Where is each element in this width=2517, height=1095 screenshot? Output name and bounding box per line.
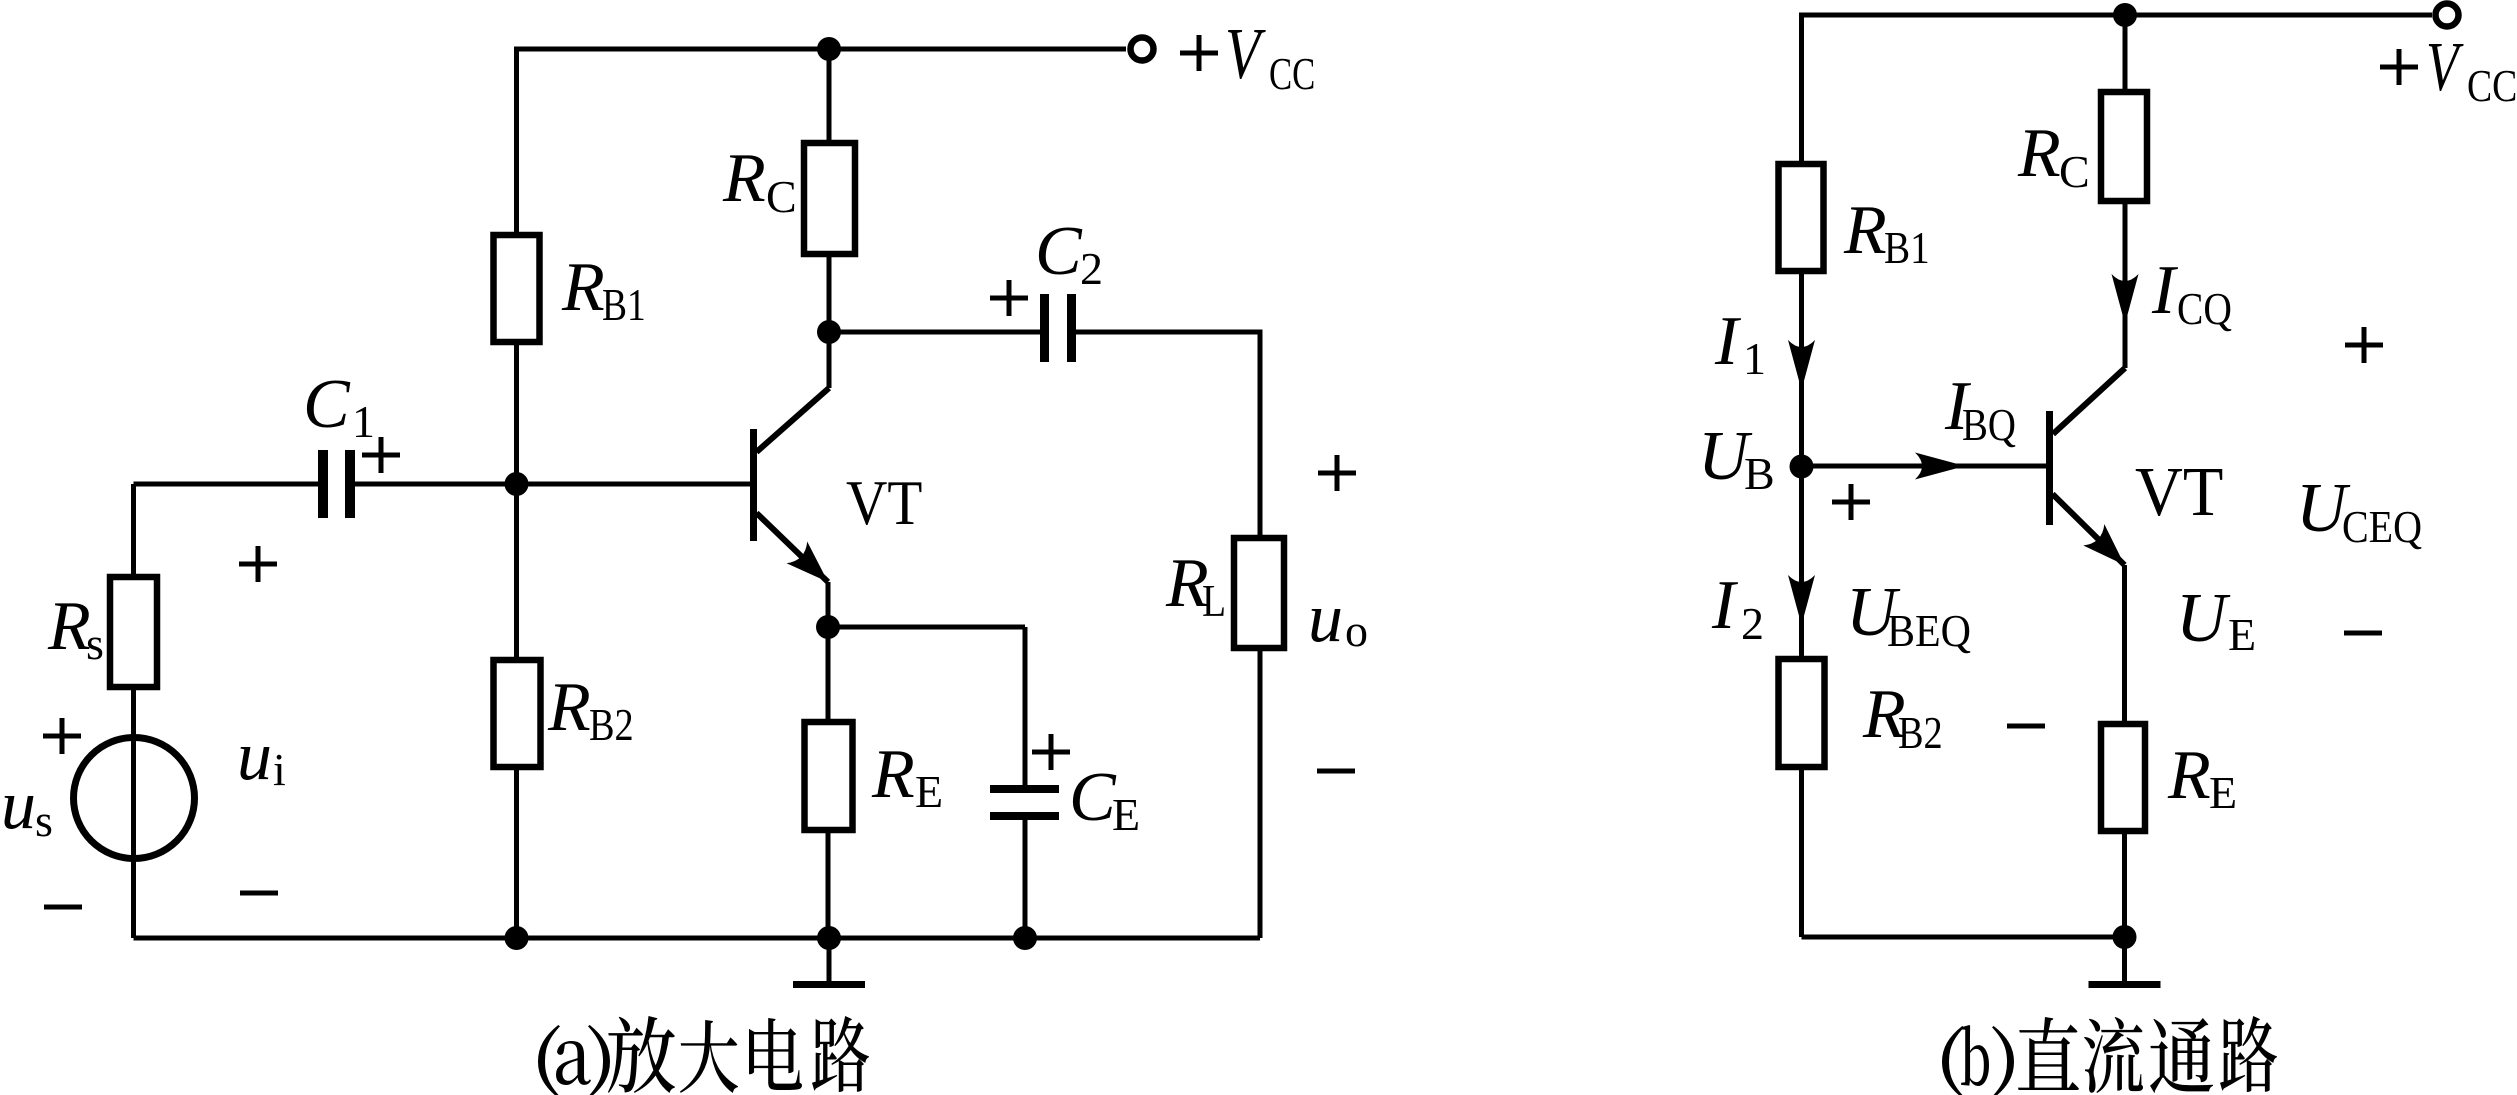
svg-text:R: R (722, 140, 766, 217)
svg-text:B1: B1 (1884, 222, 1930, 273)
svg-text:R: R (547, 669, 591, 746)
svg-text:u: u (1308, 580, 1343, 657)
svg-text:VT: VT (846, 467, 922, 538)
svg-text:1: 1 (1743, 333, 1766, 384)
svg-text:V: V (1225, 13, 1266, 94)
svg-text:s: s (35, 795, 53, 846)
svg-text:R: R (47, 588, 91, 665)
svg-text:C: C (766, 171, 797, 222)
svg-text:R: R (871, 736, 915, 813)
svg-text:U: U (2176, 580, 2231, 657)
svg-text:u: u (237, 718, 272, 795)
svg-text:E: E (2228, 609, 2256, 660)
svg-text:B2: B2 (589, 699, 634, 750)
svg-text:E: E (1112, 789, 1140, 840)
svg-text:C: C (1069, 759, 1117, 836)
svg-text:V: V (2426, 29, 2464, 106)
svg-text:CC: CC (1269, 48, 1315, 99)
svg-text:B2: B2 (1898, 707, 1943, 758)
svg-text:CC: CC (2467, 60, 2517, 111)
svg-text:o: o (1345, 605, 1368, 656)
svg-text:R: R (2017, 115, 2061, 192)
svg-text:u: u (1, 767, 36, 844)
svg-text:I: I (2151, 252, 2179, 329)
svg-text:CQ: CQ (2177, 283, 2232, 334)
svg-text:I: I (1714, 303, 1742, 380)
svg-text:i: i (273, 744, 286, 795)
svg-text:2: 2 (1080, 243, 1103, 294)
svg-text:C: C (2059, 146, 2090, 197)
svg-text:C: C (303, 366, 351, 443)
svg-text:B: B (1744, 448, 1775, 499)
svg-text:B1: B1 (602, 279, 646, 330)
svg-text:R: R (561, 249, 605, 326)
svg-text:I: I (1711, 567, 1739, 644)
svg-text:C: C (1035, 213, 1083, 290)
svg-text:E: E (2209, 767, 2237, 818)
svg-text:BQ: BQ (1962, 399, 2016, 450)
svg-text:L: L (1202, 575, 1226, 626)
svg-text:R: R (1843, 192, 1887, 269)
svg-text:E: E (915, 766, 943, 817)
svg-text:2: 2 (1741, 598, 1764, 649)
svg-text:VT: VT (2135, 454, 2223, 531)
svg-text:1: 1 (352, 396, 375, 447)
svg-text:s: s (86, 618, 104, 669)
svg-text:R: R (2167, 737, 2211, 814)
svg-text:BEQ: BEQ (1887, 605, 1971, 656)
svg-text:CEQ: CEQ (2342, 501, 2422, 552)
